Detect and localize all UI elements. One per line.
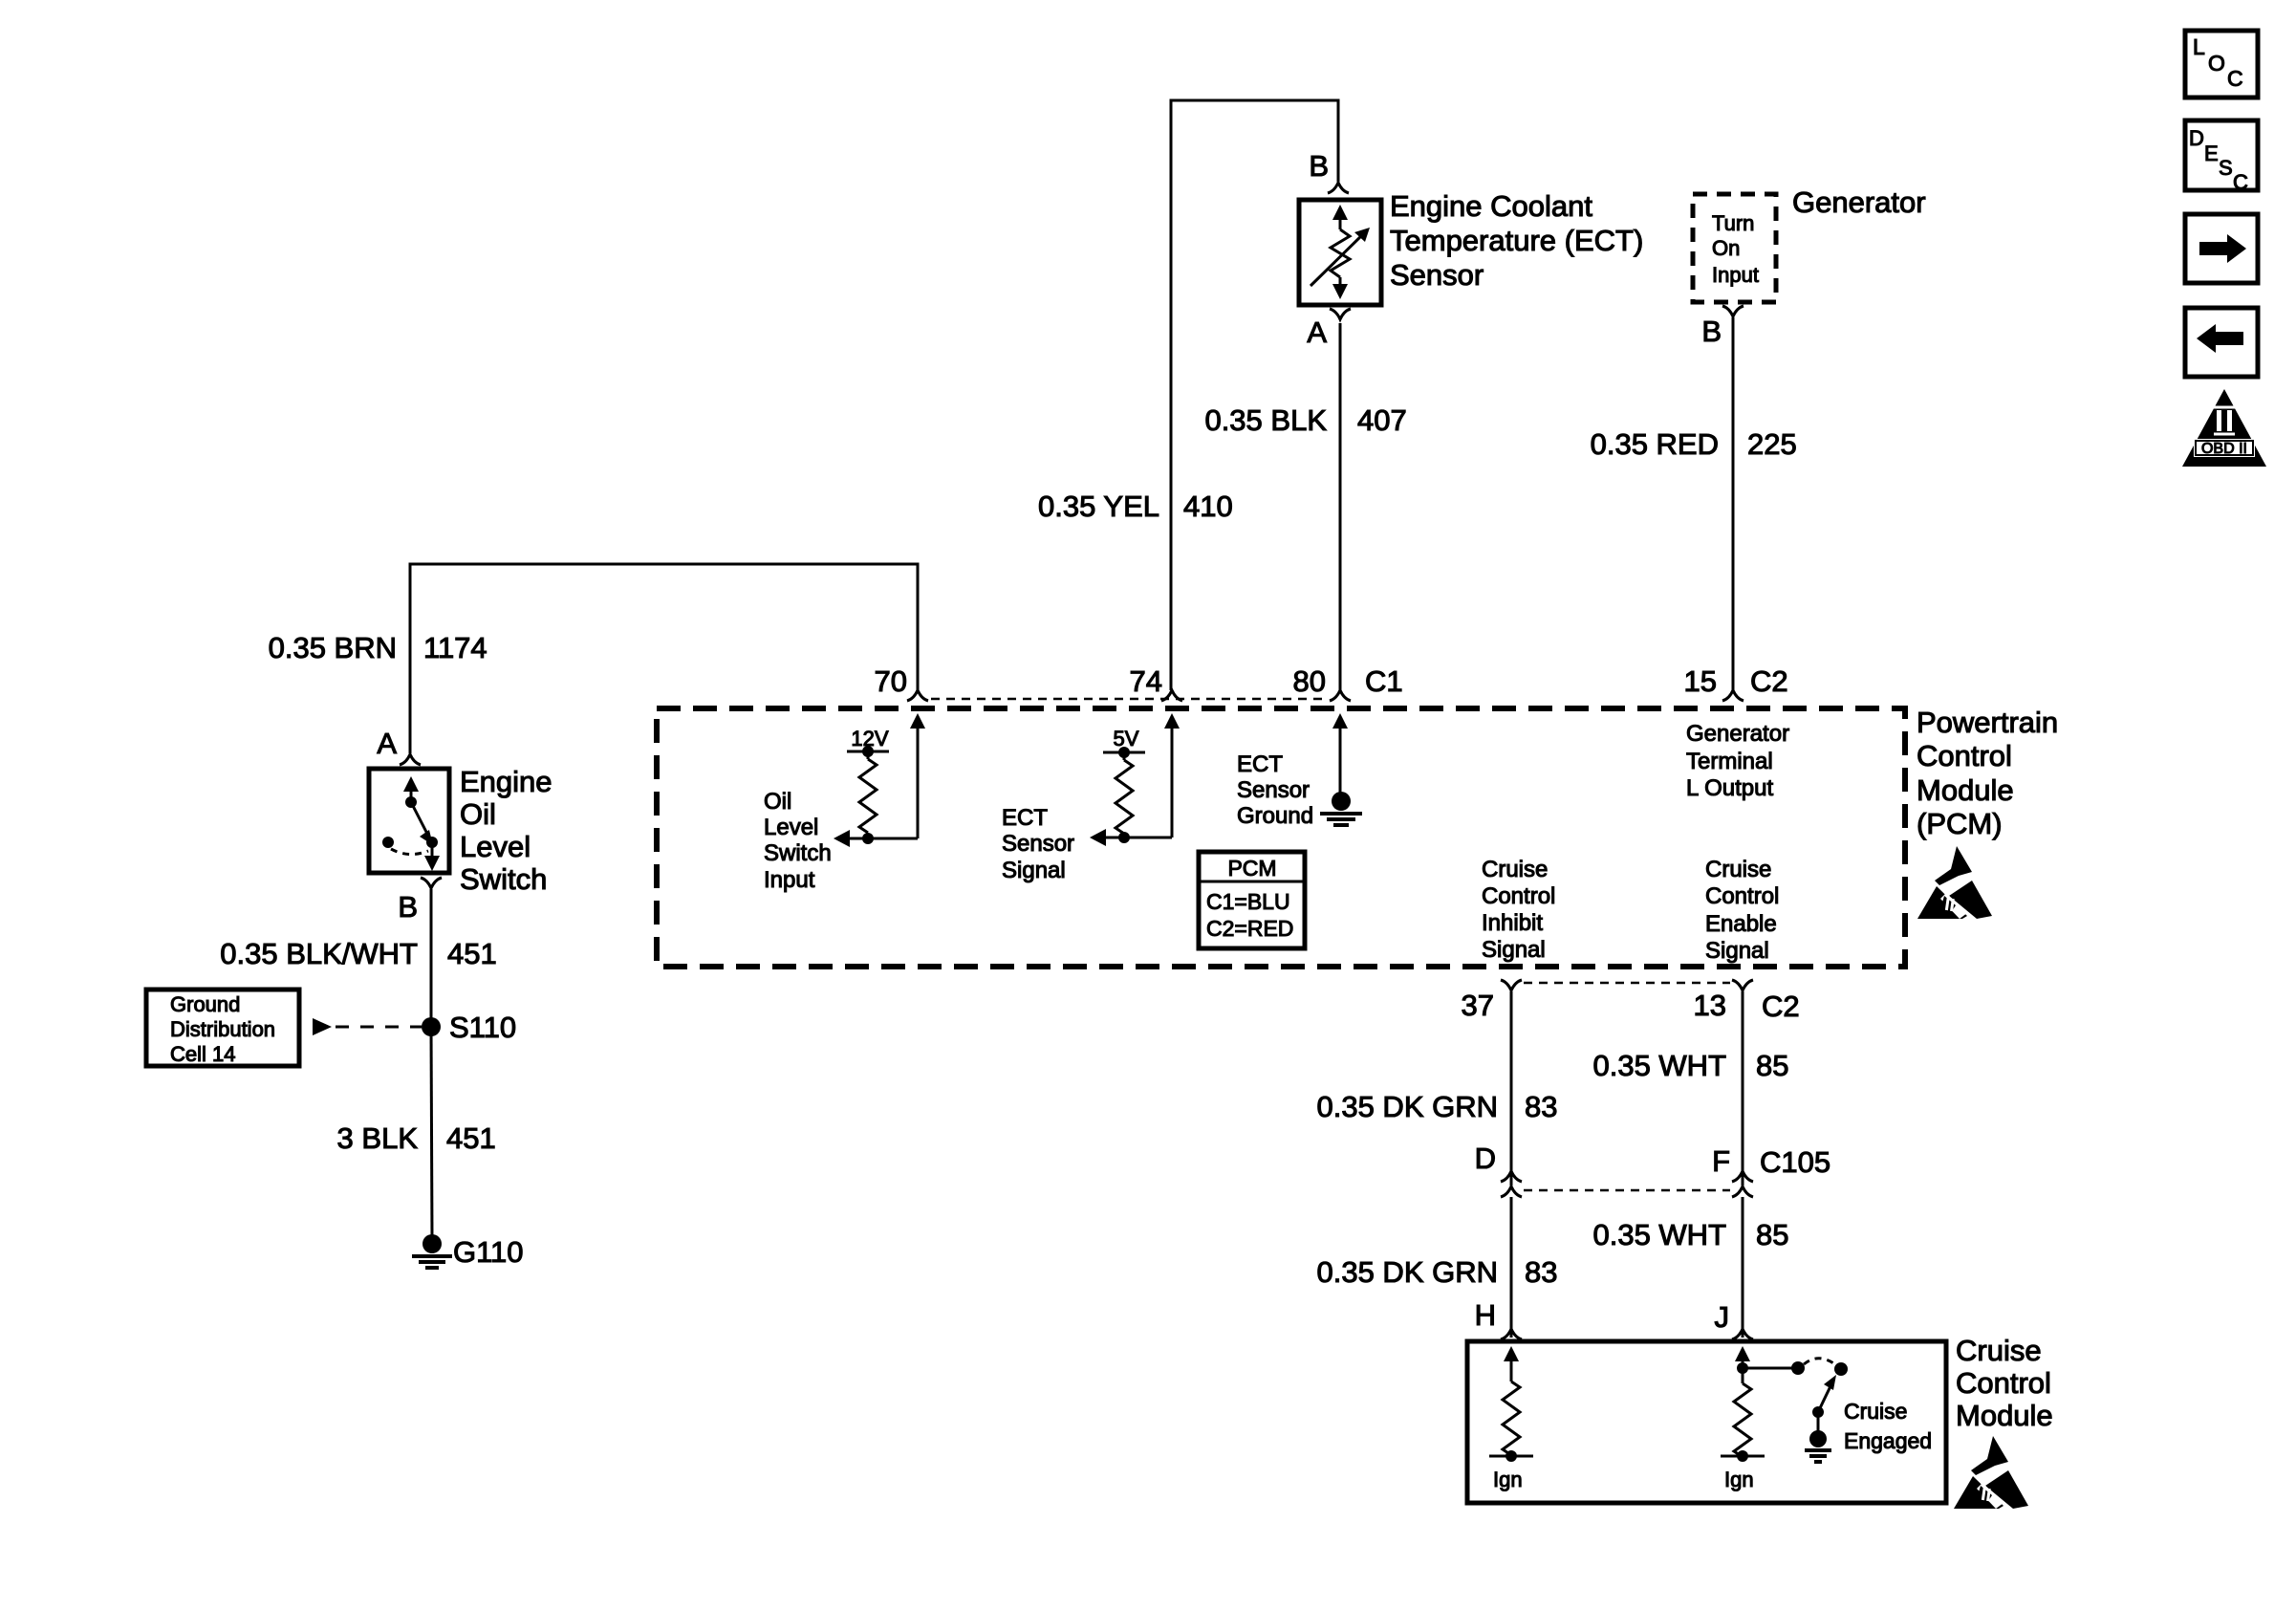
off-page arrow from ground distribution box [313,1018,332,1035]
svg-text:ECT: ECT [1002,805,1048,831]
svg-text:Signal: Signal [1705,938,1769,964]
svg-text:0.35 RED: 0.35 RED [1591,427,1719,461]
svg-text:Terminal: Terminal [1686,749,1773,774]
svg-text:0.35 BLK/WHT: 0.35 BLK/WHT [220,937,418,970]
pin 70 internal input line with up arrow [834,713,925,847]
5V pull-up resistor for ECT sensor signal [1103,727,1145,843]
svg-text:Cell 14: Cell 14 [170,1042,235,1066]
svg-text:J: J [1715,1300,1730,1334]
svg-text:Distribution: Distribution [170,1017,275,1041]
cruise module pin H connector [1501,1329,1522,1339]
svg-text:410: 410 [1183,490,1233,523]
12V pull-up resistor for oil level switch input [847,727,889,844]
connector dashed line (C105 D-F) [1524,1189,1730,1192]
svg-text:C: C [2233,170,2248,194]
svg-text:Sensor: Sensor [1237,777,1310,803]
svg-text:Ground: Ground [170,992,240,1016]
svg-text:80: 80 [1293,664,1326,698]
PCM pin 74 connector [1161,690,1182,701]
svg-text:74: 74 [1130,664,1162,698]
wire: S110 down to G110 (3 BLK 451) [431,1027,432,1238]
svg-text:Ign: Ign [1724,1468,1754,1491]
svg-text:B: B [398,890,418,924]
switch symbol inside oil level switch [382,776,440,871]
PCM connector code table [1199,852,1305,948]
wire: oil level switch B down to S110 (BLK/WHT 451) [430,889,433,1027]
svg-text:H: H [1475,1298,1496,1332]
svg-text:Control: Control [1482,883,1555,909]
ECT sensor connector pin A [1330,309,1351,319]
PCM pin 13 connector [1732,980,1753,990]
svg-text:B: B [1701,315,1722,348]
svg-text:Signal: Signal [1002,858,1066,883]
svg-text:Level: Level [764,815,818,840]
LOC icon box [2185,31,2258,98]
svg-text:Powertrain: Powertrain [1917,706,2058,739]
wire: C105 D down to cruise module H (DK GRN 83) [1510,1197,1513,1338]
svg-text:G110: G110 [453,1235,524,1269]
svg-text:Sensor: Sensor [1390,258,1484,292]
connector dashed line (pins 37-13) [1524,982,1730,985]
wire: ECT sensor loop top horizontal (YEL 410 branch to ECT B) [1171,100,1338,690]
splice S110 [422,1017,441,1036]
svg-text:Engine Coolant: Engine Coolant [1390,189,1592,223]
svg-text:83: 83 [1525,1090,1557,1123]
svg-text:S: S [2219,156,2233,180]
svg-text:PCM: PCM [1227,856,1276,881]
engine coolant temperature sensor box [1299,200,1381,305]
svg-text:Temperature (ECT): Temperature (ECT) [1390,224,1643,257]
svg-text:1174: 1174 [423,631,487,664]
thermistor symbol inside ECT sensor [1310,205,1370,299]
svg-text:0.35 DK GRN: 0.35 DK GRN [1316,1255,1498,1289]
svg-text:70: 70 [875,664,907,698]
svg-text:Module: Module [1917,773,2014,807]
wire: C105 F down to cruise module J (WHT 85) [1742,1197,1744,1338]
ECT sensor ground symbol inside PCM [1320,792,1362,825]
ground distribution cell 14 reference box [146,990,299,1066]
PCM pin 37 connector [1501,980,1522,990]
svg-text:Oil: Oil [460,797,496,831]
wire: PCM pin 37 down to connector C105 D [1510,991,1513,1186]
PCM pin 15 connector [1722,690,1744,701]
svg-text:D: D [1475,1142,1496,1175]
svg-text:15: 15 [1684,664,1717,698]
svg-text:85: 85 [1756,1049,1788,1082]
svg-text:L: L [2193,34,2205,59]
pin 80 internal ground line with up arrow [1332,713,1348,794]
svg-text:Cruise: Cruise [1844,1399,1907,1424]
wire: PCM pin 13 down to connector C105 F [1742,991,1744,1186]
svg-text:37: 37 [1462,989,1494,1022]
wire: ECT sensor A down to PCM pin 80 (BLK 407) [1339,323,1342,690]
generator connector pin B [1722,306,1744,316]
cruise engaged ground symbol [1805,1430,1831,1462]
cruise engaged switch [1743,1359,1848,1431]
connector dashed line C1 (pins 70-80) [931,698,1329,701]
engine oil level switch box [369,769,449,873]
svg-text:13: 13 [1694,989,1726,1022]
ESD symbol (cruise module) [1954,1436,2028,1509]
svg-text:0.35 YEL: 0.35 YEL [1038,490,1159,523]
svg-text:0.35 BRN: 0.35 BRN [269,631,397,664]
svg-text:C1: C1 [1365,664,1403,698]
svg-text:C2: C2 [1750,664,1788,698]
svg-text:C1=BLU: C1=BLU [1206,889,1290,914]
dashed reference wire to S110 [336,1026,422,1029]
pin 74 internal input line with up arrow [1090,713,1180,846]
PCM pin 80 connector [1330,690,1351,701]
engine oil level switch connector pin B [421,878,442,888]
svg-text:Oil: Oil [764,789,791,815]
svg-text:451: 451 [446,1121,496,1155]
svg-text:Module: Module [1956,1399,2053,1432]
svg-text:Control: Control [1917,739,2012,772]
cruise control module box [1467,1341,1946,1503]
svg-text:(PCM): (PCM) [1917,807,2003,840]
svg-text:Cruise: Cruise [1705,857,1771,882]
back arrow icon box [2185,308,2258,377]
svg-text:B: B [1309,149,1329,183]
svg-text:Signal: Signal [1482,937,1546,963]
svg-text:O: O [2208,51,2225,76]
svg-text:Cruise: Cruise [1482,857,1548,882]
svg-text:0.35 BLK: 0.35 BLK [1204,403,1327,437]
svg-text:Generator: Generator [1686,721,1789,747]
PCM pin 70 connector [907,690,928,701]
svg-text:C105: C105 [1760,1145,1830,1179]
svg-text:A: A [1307,315,1327,349]
svg-text:D: D [2189,126,2204,150]
svg-text:L Output: L Output [1686,775,1774,801]
svg-text:407: 407 [1357,403,1407,437]
svg-text:5V: 5V [1114,727,1139,751]
svg-text:85: 85 [1756,1218,1788,1251]
pin H internal pull-down to Ign [1489,1346,1533,1462]
svg-text:Level: Level [460,830,531,863]
PCM dashed box [657,708,1905,967]
svg-text:On: On [1712,236,1740,260]
svg-text:Sensor: Sensor [1002,831,1074,857]
DESC icon box [2185,120,2258,194]
svg-text:Switch: Switch [460,862,547,896]
cruise module pin J connector [1732,1329,1753,1339]
svg-text:C: C [2227,66,2243,91]
svg-text:E: E [2204,141,2219,165]
svg-text:Inhibit: Inhibit [1482,910,1543,936]
svg-text:Generator: Generator [1792,185,1926,219]
svg-text:Ground: Ground [1237,803,1313,829]
svg-text:Control: Control [1705,883,1779,909]
wire: generator B down to PCM pin 15 (RED 225) [1732,317,1735,690]
inline connector C105 pin F [1732,1171,1753,1197]
svg-text:A: A [377,727,397,760]
svg-text:0.35 DK GRN: 0.35 DK GRN [1316,1090,1498,1123]
svg-text:Engaged: Engaged [1844,1428,1932,1453]
generator turn on input dashed box [1693,194,1776,302]
svg-text:3 BLK: 3 BLK [337,1121,419,1155]
svg-text:Control: Control [1956,1366,2051,1400]
svg-text:S110: S110 [449,1011,516,1044]
ESD symbol (PCM) [1917,846,1992,919]
svg-text:Turn: Turn [1712,211,1754,235]
inline connector C105 pin D [1501,1171,1522,1197]
OBD II triangle icon [2182,389,2266,467]
svg-text:Cruise: Cruise [1956,1334,2042,1367]
svg-text:83: 83 [1525,1255,1557,1289]
pin J internal pull-down to Ign [1721,1346,1765,1462]
ground G110 [412,1234,452,1268]
svg-text:Input: Input [1712,263,1759,287]
svg-text:451: 451 [447,937,497,970]
svg-text:ECT: ECT [1237,751,1283,777]
wire: engine oil level switch A up and over to PCM pin 70 [410,564,918,753]
svg-text:OBD II: OBD II [2201,441,2247,457]
ECT sensor connector pin B [1328,183,1349,193]
svg-text:C2: C2 [1762,990,1800,1023]
svg-text:Input: Input [764,867,815,893]
svg-text:C2=RED: C2=RED [1206,916,1293,941]
engine oil level switch connector pin A [400,754,421,765]
svg-text:Enable: Enable [1705,911,1777,937]
svg-text:Engine: Engine [460,765,552,798]
svg-text:0.35 WHT: 0.35 WHT [1592,1218,1726,1251]
svg-text:F: F [1712,1144,1730,1178]
svg-text:Ign: Ign [1493,1468,1523,1491]
svg-text:Switch: Switch [764,840,832,866]
forward arrow icon box [2185,214,2258,283]
svg-text:225: 225 [1747,427,1797,461]
svg-text:0.35 WHT: 0.35 WHT [1592,1049,1726,1082]
